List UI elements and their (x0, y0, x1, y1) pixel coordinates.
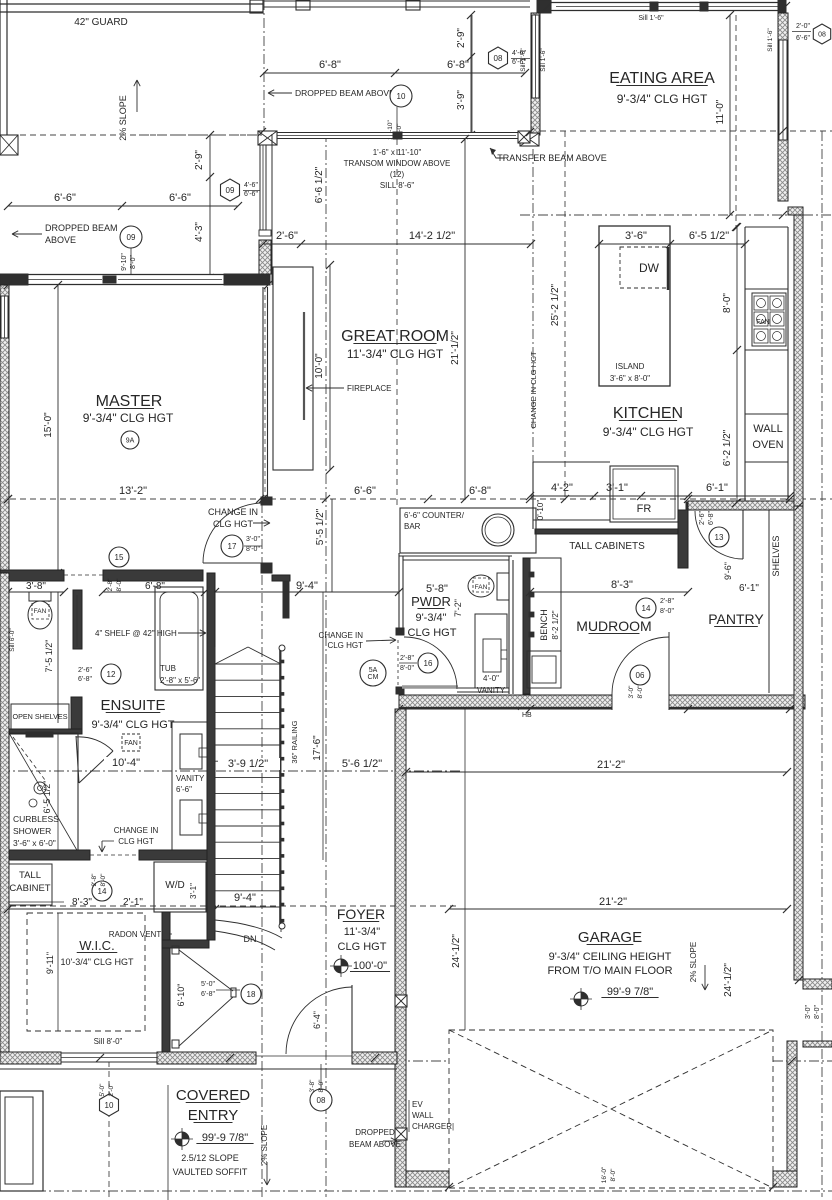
svg-text:VANITY: VANITY (176, 774, 205, 783)
svg-text:9'-4": 9'-4" (234, 892, 256, 904)
svg-text:7'-2": 7'-2" (453, 599, 463, 617)
svg-text:DROPPED BEAM: DROPPED BEAM (45, 223, 118, 233)
svg-text:6'-6": 6'-6" (169, 192, 191, 204)
svg-text:FIREPLACE: FIREPLACE (347, 384, 391, 393)
svg-text:2'-6": 2'-6" (276, 230, 298, 242)
svg-text:CURBLESS: CURBLESS (13, 814, 59, 824)
svg-text:DROPPED BEAM ABOVE: DROPPED BEAM ABOVE (295, 88, 395, 98)
svg-text:4'-2": 4'-2" (551, 482, 573, 494)
svg-text:Sill 1'-6": Sill 1'-6" (520, 48, 527, 72)
svg-text:FAN: FAN (475, 584, 488, 591)
svg-text:4'-3": 4'-3" (194, 222, 205, 242)
svg-text:3'-0": 3'-0" (246, 536, 260, 543)
svg-text:08: 08 (818, 32, 826, 39)
svg-text:6'-6": 6'-6" (796, 35, 810, 42)
svg-text:8'-0": 8'-0" (660, 608, 674, 615)
svg-text:TALL CABINETS: TALL CABINETS (569, 541, 645, 552)
svg-text:10: 10 (397, 92, 406, 101)
svg-text:5'-0": 5'-0" (99, 1083, 106, 1097)
svg-text:PANTRY: PANTRY (708, 611, 764, 627)
svg-text:11'-3/4": 11'-3/4" (344, 926, 380, 938)
svg-text:8'-0": 8'-0" (246, 546, 260, 553)
svg-text:6'-6 1/2": 6'-6 1/2" (314, 166, 325, 203)
svg-text:11'-3/4" CLG HGT: 11'-3/4" CLG HGT (347, 347, 444, 361)
svg-text:6'-6": 6'-6" (244, 191, 258, 198)
svg-text:KITCHEN: KITCHEN (613, 405, 683, 422)
svg-text:14: 14 (98, 887, 107, 896)
svg-text:0'-10": 0'-10" (536, 500, 545, 521)
svg-text:9'-3/4": 9'-3/4" (415, 612, 446, 624)
svg-text:4" SHELF @ 42" HIGH: 4" SHELF @ 42" HIGH (95, 629, 177, 638)
svg-text:ENTRY: ENTRY (188, 1107, 239, 1124)
svg-text:OVEN: OVEN (752, 439, 783, 451)
svg-text:2% SLOPE: 2% SLOPE (118, 95, 128, 141)
svg-text:1'-6" x 11'-10": 1'-6" x 11'-10" (373, 148, 422, 157)
svg-text:ABOVE: ABOVE (45, 235, 76, 245)
svg-text:13: 13 (715, 533, 724, 542)
svg-text:FR: FR (637, 503, 652, 515)
svg-text:3'-6": 3'-6" (625, 230, 647, 242)
svg-text:08: 08 (494, 54, 503, 63)
svg-text:11'-0": 11'-0" (715, 99, 726, 124)
svg-text:16: 16 (424, 659, 433, 668)
svg-text:TUB: TUB (160, 664, 176, 673)
svg-text:5'-5 1/2": 5'-5 1/2" (315, 508, 326, 545)
svg-text:TRANSFER BEAM ABOVE: TRANSFER BEAM ABOVE (497, 153, 607, 163)
svg-text:8'-2 1/2": 8'-2 1/2" (551, 610, 560, 639)
svg-text:GARAGE: GARAGE (578, 929, 642, 946)
svg-text:2% SLOPE: 2% SLOPE (689, 942, 698, 982)
svg-text:6'-8": 6'-8" (469, 485, 491, 497)
svg-text:FAN: FAN (124, 740, 138, 747)
svg-text:10'-4": 10'-4" (112, 757, 140, 769)
svg-text:SHELVES: SHELVES (771, 536, 781, 577)
svg-text:CHANGE IN: CHANGE IN (319, 631, 364, 640)
svg-text:2% SLOPE: 2% SLOPE (260, 1125, 269, 1165)
svg-text:MASTER: MASTER (96, 393, 163, 410)
svg-text:Sill 6'-0": Sill 6'-0" (9, 628, 16, 652)
svg-text:8'-0": 8'-0" (722, 293, 733, 313)
svg-text:3'-6" x 8'-0": 3'-6" x 8'-0" (610, 374, 650, 383)
svg-text:CLG HGT: CLG HGT (118, 837, 154, 846)
svg-text:ENSUITE: ENSUITE (100, 697, 165, 714)
svg-text:PWDR: PWDR (411, 594, 451, 609)
svg-text:06: 06 (636, 671, 645, 680)
svg-text:4'-0": 4'-0" (483, 674, 499, 683)
svg-text:2'-6": 2'-6" (699, 511, 706, 525)
svg-text:3'-8": 3'-8" (26, 581, 46, 592)
svg-text:5'-6 1/2": 5'-6 1/2" (342, 758, 382, 770)
svg-text:2'-8": 2'-8" (107, 578, 114, 592)
svg-text:WALL: WALL (753, 423, 783, 435)
svg-text:VAULTED SOFFIT: VAULTED SOFFIT (173, 1167, 248, 1177)
svg-text:GREAT ROOM: GREAT ROOM (341, 328, 449, 345)
svg-text:9'-4": 9'-4" (296, 580, 318, 592)
svg-text:6'-2 1/2": 6'-2 1/2" (722, 429, 733, 466)
svg-text:12: 12 (107, 670, 116, 679)
svg-text:CLG HGT: CLG HGT (338, 941, 387, 953)
svg-text:14'-2 1/2": 14'-2 1/2" (409, 230, 455, 242)
svg-text:Sill 1'-6": Sill 1'-6" (540, 48, 547, 72)
svg-text:18: 18 (247, 990, 256, 999)
svg-text:3'-8": 3'-8" (309, 1079, 316, 1093)
svg-text:21'-1/2": 21'-1/2" (450, 331, 461, 365)
svg-text:10: 10 (105, 1101, 114, 1110)
svg-text:9'-3/4" CLG HGT: 9'-3/4" CLG HGT (91, 719, 174, 731)
svg-text:09: 09 (226, 186, 235, 195)
svg-text:5A: 5A (369, 667, 378, 674)
svg-text:2'-8": 2'-8" (400, 655, 414, 662)
svg-text:9'-6": 9'-6" (723, 562, 733, 580)
svg-text:6'-8": 6'-8" (447, 59, 469, 71)
svg-text:9'-10": 9'-10" (121, 253, 128, 271)
svg-text:CABINET: CABINET (9, 883, 50, 894)
svg-text:10'-3/4" CLG HGT: 10'-3/4" CLG HGT (61, 957, 134, 967)
svg-text:9'-11": 9'-11" (45, 952, 55, 974)
svg-text:CHANGE IN: CHANGE IN (208, 507, 258, 517)
svg-text:2.5/12 SLOPE: 2.5/12 SLOPE (181, 1153, 239, 1163)
svg-text:8'-0": 8'-0" (610, 1168, 617, 1182)
svg-text:RADON VENT: RADON VENT (109, 930, 162, 939)
svg-text:Sill 1'-6": Sill 1'-6" (767, 28, 774, 52)
svg-text:13'-2": 13'-2" (119, 485, 147, 497)
svg-text:15'-0": 15'-0" (43, 412, 54, 438)
svg-text:2'-1": 2'-1" (123, 897, 143, 908)
svg-text:6'-6": 6'-6" (354, 485, 376, 497)
svg-text:08: 08 (317, 1096, 326, 1105)
svg-text:6'-5 1/2": 6'-5 1/2" (42, 781, 52, 814)
svg-text:4'-6": 4'-6" (244, 182, 258, 189)
svg-text:WALL: WALL (412, 1111, 434, 1120)
svg-text:3'-9 1/2": 3'-9 1/2" (228, 758, 268, 770)
svg-text:2'-0": 2'-0" (108, 1083, 115, 1097)
svg-text:17: 17 (228, 542, 237, 551)
svg-text:17'-6": 17'-6" (312, 735, 323, 761)
svg-text:HB: HB (522, 712, 532, 719)
svg-text:5'-0": 5'-0" (201, 981, 215, 988)
svg-text:6'-4": 6'-4" (312, 1011, 322, 1029)
svg-text:6'-6" COUNTER/: 6'-6" COUNTER/ (404, 511, 465, 520)
svg-text:100'-0": 100'-0" (353, 960, 387, 972)
svg-text:DW: DW (639, 261, 660, 275)
svg-text:9'-3/4" CLG HGT: 9'-3/4" CLG HGT (83, 411, 174, 425)
svg-text:24'-1/2": 24'-1/2" (451, 934, 462, 968)
svg-text:CM: CM (368, 674, 379, 681)
svg-text:Sill 8'-0": Sill 8'-0" (94, 1037, 123, 1046)
svg-text:BENCH: BENCH (539, 609, 549, 641)
svg-text:CHARGER|: CHARGER| (412, 1122, 454, 1131)
svg-text:8'-3": 8'-3" (72, 897, 92, 908)
svg-text:9'-3/4" CEILING HEIGHT: 9'-3/4" CEILING HEIGHT (549, 951, 672, 963)
svg-text:9'-3/4" CLG HGT: 9'-3/4" CLG HGT (603, 425, 694, 439)
svg-text:CLG HGT: CLG HGT (213, 519, 254, 529)
svg-text:21'-2": 21'-2" (599, 896, 627, 908)
svg-text:W/D: W/D (165, 880, 184, 891)
svg-text:6'-8": 6'-8" (201, 991, 215, 998)
svg-text:TALL: TALL (19, 870, 41, 881)
svg-text:EV: EV (412, 1100, 423, 1109)
svg-text:24'-1/2": 24'-1/2" (723, 963, 734, 997)
svg-text:W.I.C.: W.I.C. (79, 938, 114, 953)
svg-text:8'-0": 8'-0" (100, 873, 107, 887)
svg-text:10'-0": 10'-0" (314, 353, 325, 379)
svg-text:MUDROOM: MUDROOM (576, 618, 651, 634)
svg-text:COVERED: COVERED (176, 1087, 250, 1104)
svg-text:14: 14 (642, 604, 651, 613)
svg-text:FROM T/O MAIN FLOOR: FROM T/O MAIN FLOOR (547, 965, 672, 977)
svg-text:DROPPED: DROPPED (355, 1128, 395, 1137)
svg-text:ISLAND: ISLAND (616, 362, 645, 371)
svg-text:6'-8": 6'-8" (319, 59, 341, 71)
svg-text:8'-0": 8'-0" (116, 578, 123, 592)
svg-text:21'-2": 21'-2" (597, 759, 625, 771)
svg-text:CHANGE IN CLG HGT: CHANGE IN CLG HGT (529, 351, 538, 429)
svg-text:CLG HGT: CLG HGT (327, 641, 363, 650)
svg-text:99'-9 7/8": 99'-9 7/8" (202, 1132, 248, 1144)
svg-text:BAR: BAR (404, 522, 421, 531)
svg-text:9A: 9A (126, 438, 135, 445)
svg-text:6'-6": 6'-6" (176, 785, 192, 794)
svg-text:2'-0": 2'-0" (796, 23, 810, 30)
svg-text:(12): (12) (390, 170, 405, 179)
svg-text:2'-8": 2'-8" (660, 598, 674, 605)
svg-text:OPEN SHELVES: OPEN SHELVES (13, 712, 68, 721)
svg-text:2'-9": 2'-9" (194, 150, 205, 170)
svg-text:2'-8" x 5'-6": 2'-8" x 5'-6" (160, 676, 200, 685)
svg-text:FOYER: FOYER (337, 906, 385, 922)
svg-text:CLG HGT: CLG HGT (408, 627, 457, 639)
svg-text:6'-1": 6'-1" (706, 482, 728, 494)
svg-text:16'-0": 16'-0" (601, 1166, 608, 1183)
svg-text:15: 15 (115, 553, 124, 562)
svg-text:42" GUARD: 42" GUARD (74, 17, 128, 28)
svg-text:EATING AREA: EATING AREA (609, 70, 715, 87)
svg-text:SILL 8'-6": SILL 8'-6" (380, 181, 414, 190)
svg-text:FAN: FAN (34, 608, 47, 615)
svg-text:36" RAILING: 36" RAILING (290, 720, 299, 763)
svg-text:6'-10": 6'-10" (176, 984, 186, 1007)
svg-text:8'-0": 8'-0" (318, 1079, 325, 1093)
svg-text:VANITY: VANITY (477, 686, 506, 695)
svg-text:99'-9 7/8": 99'-9 7/8" (607, 986, 653, 998)
svg-text:FAN: FAN (756, 319, 770, 326)
svg-text:6'-6": 6'-6" (54, 192, 76, 204)
svg-text:6'-1": 6'-1" (739, 583, 759, 594)
svg-text:CHANGE IN: CHANGE IN (114, 826, 159, 835)
svg-text:3'-9": 3'-9" (456, 90, 467, 110)
svg-text:8'-3": 8'-3" (611, 579, 633, 591)
svg-text:2'-6": 2'-6" (78, 667, 92, 674)
svg-text:09: 09 (127, 233, 136, 242)
svg-text:9'-3/4" CLG HGT: 9'-3/4" CLG HGT (617, 92, 708, 106)
svg-text:6'-8": 6'-8" (78, 676, 92, 683)
svg-text:6'-8": 6'-8" (708, 511, 715, 525)
svg-text:3'-0": 3'-0" (805, 1005, 812, 1019)
svg-text:3'-1": 3'-1" (606, 482, 628, 494)
svg-text:8'-0": 8'-0" (637, 685, 644, 699)
svg-text:3'-1": 3'-1" (189, 883, 198, 899)
svg-text:6'-5 1/2": 6'-5 1/2" (689, 230, 729, 242)
svg-text:2'-8": 2'-8" (91, 873, 98, 887)
svg-text:3'-0": 3'-0" (628, 685, 635, 699)
svg-text:7'-5 1/2": 7'-5 1/2" (44, 640, 54, 673)
svg-text:25'-2 1/2": 25'-2 1/2" (550, 283, 561, 326)
svg-text:SHOWER: SHOWER (13, 826, 51, 836)
svg-text:3'-6" x 6'-0": 3'-6" x 6'-0" (13, 838, 56, 848)
svg-text:8'-0": 8'-0" (814, 1005, 821, 1019)
svg-text:Sill 1'-6": Sill 1'-6" (638, 15, 664, 22)
svg-text:TRANSOM WINDOW ABOVE: TRANSOM WINDOW ABOVE (344, 159, 451, 168)
svg-text:8'-0": 8'-0" (400, 665, 414, 672)
svg-text:2'-9": 2'-9" (456, 28, 467, 48)
